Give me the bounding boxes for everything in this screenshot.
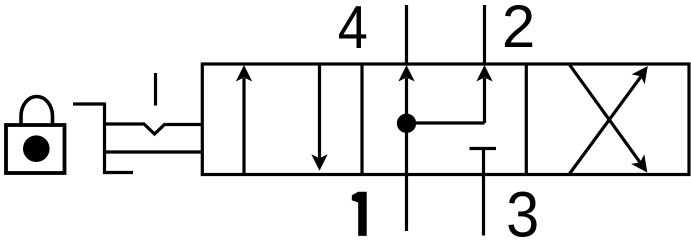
lock L1 shackle bbox=[21, 97, 53, 125]
lever bracket top line bbox=[73, 102, 105, 105]
port 3 line bbox=[482, 175, 485, 236]
detent bottom line bbox=[105, 150, 203, 153]
left box up arrow head bbox=[236, 65, 252, 82]
lock L1 dot bbox=[23, 135, 50, 162]
lock L1 body bbox=[6, 125, 65, 173]
middle box left passage arrow head bbox=[398, 65, 414, 82]
detent pin bbox=[154, 73, 157, 106]
left box up arrow shaft bbox=[242, 78, 245, 175]
middle box arm vertical shaft bbox=[483, 78, 486, 123]
label port 1 bbox=[352, 192, 367, 236]
lever bracket foot bbox=[103, 171, 133, 174]
right box diagonal up arrow shaft bbox=[569, 77, 641, 175]
svg-text:2: 2 bbox=[502, 0, 535, 60]
left box down arrow shaft bbox=[318, 64, 321, 160]
right box diagonal down arrow shaft bbox=[569, 64, 641, 163]
middle box left passage shaft bbox=[405, 78, 408, 175]
blocked port 3 stub bbox=[482, 149, 485, 175]
valve body outline bbox=[202, 64, 689, 175]
blocked port 3 bar bbox=[470, 147, 497, 150]
valve divider 1 bbox=[360, 64, 363, 175]
port 4 line bbox=[405, 5, 408, 64]
lever bracket vertical bbox=[103, 103, 106, 175]
svg-text:4: 4 bbox=[338, 0, 368, 62]
middle box arm arrow head bbox=[476, 65, 492, 82]
middle box junction dot bbox=[397, 114, 416, 133]
port 1 line bbox=[405, 175, 408, 232]
right box diagonal up arrow head bbox=[632, 66, 648, 84]
left box down arrow head bbox=[311, 154, 327, 171]
middle box arm horizontal bbox=[407, 121, 485, 124]
right box diagonal down arrow head bbox=[631, 154, 647, 172]
valve divider 2 bbox=[525, 64, 528, 175]
port 2 line bbox=[483, 5, 486, 64]
detent top line with notch bbox=[105, 124, 203, 134]
svg-text:3: 3 bbox=[506, 180, 539, 245]
